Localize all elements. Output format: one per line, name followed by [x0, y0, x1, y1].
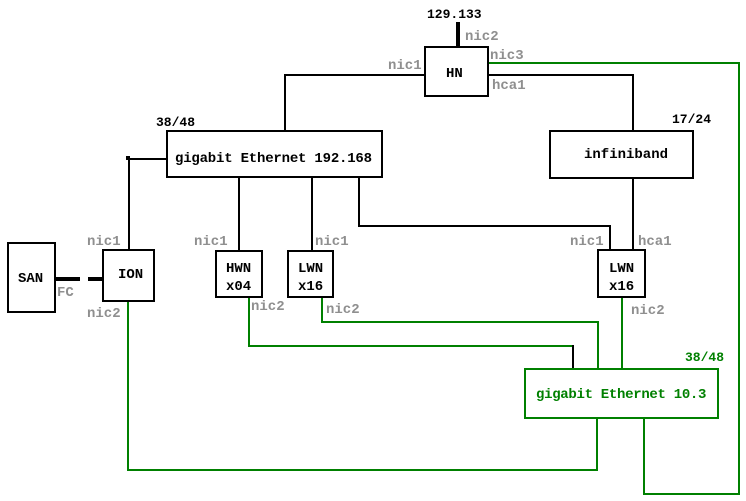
wire black segment into gigabit Ethernet 10.3 top — [572, 345, 574, 370]
label 129.133 — [427, 8, 482, 21]
label 38/48 of gigabit Ethernet 192.168 — [156, 116, 195, 129]
label hca1 of LWN right — [638, 235, 672, 249]
label nic1 of HN — [388, 59, 422, 73]
label nic2 of HN — [465, 30, 499, 44]
node gigabit Ethernet 192.168 — [166, 130, 383, 178]
wire HWN nic2 green vertical — [248, 296, 250, 347]
node gigabit Ethernet 10.3 — [524, 368, 719, 419]
wire right LWN nic2 green vertical into gigabit Ethernet 10.3 top — [621, 296, 623, 370]
wire gigabit Ethernet 192.168 left horizontal — [128, 158, 168, 160]
wire green vertical up into gigabit Ethernet 10.3 bottom — [596, 417, 598, 471]
label nic1 of LWN right — [570, 235, 604, 249]
wire HN nic3 green horizontal — [488, 62, 740, 64]
label 17/24 of infiniband — [672, 113, 711, 126]
wire HN nic1 horizontal — [284, 74, 425, 76]
label nic2 of LWN right — [631, 304, 665, 318]
wire nic3 green vertical right edge — [738, 62, 740, 495]
wire ION nic2 green bottom horizontal — [127, 469, 598, 471]
wire LWN nic2 green vertical — [321, 296, 323, 323]
node LWN x16 middle — [287, 250, 334, 298]
wire nic3 green vertical up into gigabit Ethernet 10.3 bottom — [643, 417, 645, 495]
wire HN hca1 horizontal — [488, 74, 634, 76]
wire gigabit Ethernet 192.168 third drop vertical — [358, 176, 360, 227]
wire ION nic2 green vertical — [127, 300, 129, 471]
wire FC thick dash segment 2 — [88, 277, 104, 281]
junction dot at gigabit Ethernet 192.168 left corner — [126, 156, 130, 160]
label nic2 of HWN — [251, 300, 285, 314]
node infiniband — [549, 130, 694, 179]
node LWN x16 right — [597, 249, 646, 298]
label 38/48 of gigabit Ethernet 10.3 — [685, 351, 724, 364]
wire gigabit Ethernet 192.168 down to LWN nic1 — [311, 176, 313, 252]
wire horizontal toward right LWN nic1 — [358, 225, 611, 227]
label nic2 of LWN middle — [326, 303, 360, 317]
wire FC thick dash segment 1 — [54, 277, 80, 281]
wire infiniband hca1 vertical down to right LWN — [632, 177, 634, 251]
label nic1 of ION — [87, 235, 121, 249]
label nic3 of HN — [490, 49, 524, 63]
label hca1 of HN — [492, 79, 526, 93]
wire HN nic1 vertical down to gigabit Ethernet 192.168 — [284, 74, 286, 132]
node SAN — [7, 242, 56, 313]
wire vertical down to ION nic1 — [128, 158, 130, 251]
wire HN nic2 thick stub — [456, 22, 460, 48]
wire gigabit Ethernet 192.168 down to HWN nic1 — [238, 176, 240, 252]
label nic1 of HWN — [194, 235, 228, 249]
label FC — [57, 286, 74, 300]
wire HN hca1 vertical down to infiniband — [632, 74, 634, 132]
wire LWN nic2 green horizontal — [321, 321, 599, 323]
node HWN x04 — [215, 250, 263, 298]
node HN — [424, 46, 489, 97]
wire HWN nic2 green horizontal — [248, 345, 574, 347]
node ION — [102, 249, 155, 302]
wire green vertical down into gigabit Ethernet 10.3 top — [597, 321, 599, 370]
wire vertical down into right LWN nic1 — [609, 225, 611, 251]
label nic2 of ION — [87, 307, 121, 321]
wire nic3 green bottom horizontal — [643, 493, 740, 495]
label nic1 of LWN middle — [315, 235, 349, 249]
